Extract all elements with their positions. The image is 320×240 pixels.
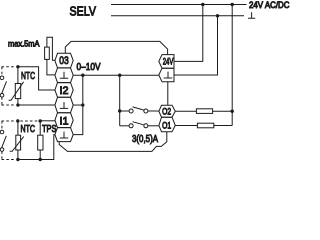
svg-text:TPS: TPS — [42, 124, 57, 135]
wire switch feed vertical — [119, 75, 121, 126]
wire sensor2 bottom link — [18, 159, 40, 161]
switch sensor2 contact bottom — [0, 148, 4, 152]
thermistor NTC2 diagonal — [10, 137, 24, 152]
svg-text:O2: O2 — [162, 107, 171, 118]
wire resistor bottom to ground tag row2 — [47, 59, 55, 75]
node junction ground row4 — [81, 103, 84, 106]
svg-text:3(0,5)A: 3(0,5)A — [132, 133, 158, 145]
ground glyph right stack — [164, 72, 173, 78]
svg-text:NTC: NTC — [21, 71, 35, 82]
node junction on rail1 x232 — [231, 3, 234, 6]
wire switch2 left stub — [120, 125, 129, 127]
svg-text:I2: I2 — [60, 85, 69, 97]
ground glyph row4 — [60, 102, 68, 108]
svg-text:I1: I1 — [60, 115, 69, 127]
switch S2 contact left — [129, 124, 133, 128]
node junction sensor2 TPS bottom — [39, 158, 42, 161]
svg-text:03: 03 — [59, 55, 69, 67]
wire O1 bottom loop and body bottom — [59, 132, 167, 152]
svg-text:0–10V: 0–10V — [77, 62, 101, 73]
svg-text:NTC: NTC — [21, 124, 36, 135]
node junction sensor2 NTC top — [16, 119, 19, 122]
switch S1 contact left — [129, 109, 133, 113]
terminal ground row4 — [55, 97, 73, 113]
wire O1 to load resistor — [175, 125, 197, 127]
sensor2 switch dashed riser top — [1, 121, 3, 130]
terminal ground right stack — [159, 68, 174, 82]
wire sensor1 bottom to ground row4 — [18, 104, 55, 106]
terminal I1 — [55, 113, 73, 128]
ground glyph row2 — [60, 72, 68, 78]
wire resistor top to 03 left point — [47, 37, 55, 60]
wire sensor2 TPS top lead — [39, 121, 41, 135]
resistor max.5mA — [45, 47, 50, 59]
wire O2 to load resistor — [175, 110, 196, 112]
terminal 03 — [55, 53, 73, 68]
thermistor NTC sensor2 — [16, 135, 21, 150]
node junction sensor1 top — [16, 65, 19, 68]
wire ground row4 link — [73, 104, 83, 106]
svg-text:24V: 24V — [163, 57, 174, 67]
wire switch1 to O2 — [148, 110, 159, 112]
wire sensor2 bottom to ground row6 — [40, 135, 55, 160]
wire 24V terminal to rail1 — [174, 5, 203, 62]
wire ground terminal to rail2 — [174, 16, 218, 75]
node junction 0-10V x119.7 — [118, 74, 121, 77]
ground glyph row6 — [60, 132, 68, 138]
wire ground supply rail — [111, 15, 244, 17]
switch S2 contact right — [144, 124, 148, 128]
switch sensor1 blade — [2, 81, 7, 93]
wire long vertical from rail1 to output resistors — [231, 5, 233, 126]
wire sensor2 NTC bottom lead — [17, 150, 19, 160]
switch S1 contact right — [144, 109, 148, 113]
sensor1 switch dashed riser bottom — [1, 97, 3, 105]
terminal ground row2 — [55, 68, 73, 83]
wire 0-10V common line — [73, 74, 159, 76]
node junction switch feed — [118, 109, 121, 112]
wire sensor2 TPS to I1 — [40, 120, 55, 122]
thermistor NTC1 diagonal — [9, 82, 24, 101]
node junction 0-10V x82.8 — [81, 74, 84, 77]
wire O1 resistor to vertical — [214, 125, 232, 127]
terminal O2 — [159, 105, 175, 117]
sensor1 dashed lead bottom — [2, 104, 16, 106]
switch sensor2 contact top — [0, 130, 4, 134]
wire sensor1 NTC bottom lead — [17, 99, 19, 105]
wire common ground vertical inside body — [73, 75, 83, 134]
node junction on rail2 x217 — [216, 14, 219, 17]
switch sensor1 contact top — [0, 76, 4, 80]
switch S2 blade — [133, 122, 144, 125]
wire right stack A to output stack B — [167, 82, 169, 106]
terminal I2 — [55, 83, 73, 98]
wire sensor1 top to I2 — [18, 67, 55, 90]
svg-text:O1: O1 — [162, 121, 171, 132]
sensor2 dashed lead top — [2, 120, 15, 122]
node junction sensor2 NTC bottom — [16, 158, 19, 161]
svg-text:max.5mA: max.5mA — [8, 39, 40, 49]
node junction sensor2 TPS top — [39, 119, 42, 122]
terminal O1 — [159, 117, 175, 132]
switch S1 blade — [133, 107, 144, 110]
sensor2 switch dashed riser bottom — [1, 151, 3, 159]
terminal 24V — [159, 55, 174, 69]
wire 24V AC/DC supply rail — [111, 4, 247, 6]
wire O2 resistor to vertical — [213, 110, 233, 112]
thermistor NTC sensor1 — [15, 84, 20, 99]
wire 24V feed from 03 top to 24V terminal — [65, 41, 167, 54]
sensor1 dashed lead top — [2, 66, 16, 68]
ground symbol top right — [248, 12, 255, 18]
svg-text:SELV: SELV — [70, 5, 97, 19]
wire sensor2 TPS bottom lead — [39, 150, 41, 160]
node junction O2 row — [231, 110, 234, 113]
wire sensor2 NTC top lead — [17, 121, 19, 135]
terminal ground row6 — [55, 128, 73, 142]
resistor load O2 — [196, 109, 212, 114]
switch sensor1 contact bottom — [0, 94, 4, 98]
wire switch1 left stub — [120, 110, 129, 112]
wire sensor1 NTC top lead — [17, 67, 19, 84]
node junction sensor1 bottom — [16, 103, 19, 106]
resistor TPS sensor2 — [38, 135, 43, 150]
resistor load O1 — [197, 123, 213, 128]
switch sensor2 blade — [2, 136, 7, 148]
wire switch2 to O1 — [148, 125, 159, 127]
node junction on rail1 x203 — [201, 3, 204, 6]
svg-text:24V AC/DC: 24V AC/DC — [249, 0, 290, 10]
sensor2 dashed lead bottom — [2, 159, 15, 161]
sensor2 dashed link NTC-TPS — [20, 120, 37, 122]
sensor1 switch dashed riser top — [1, 67, 3, 76]
